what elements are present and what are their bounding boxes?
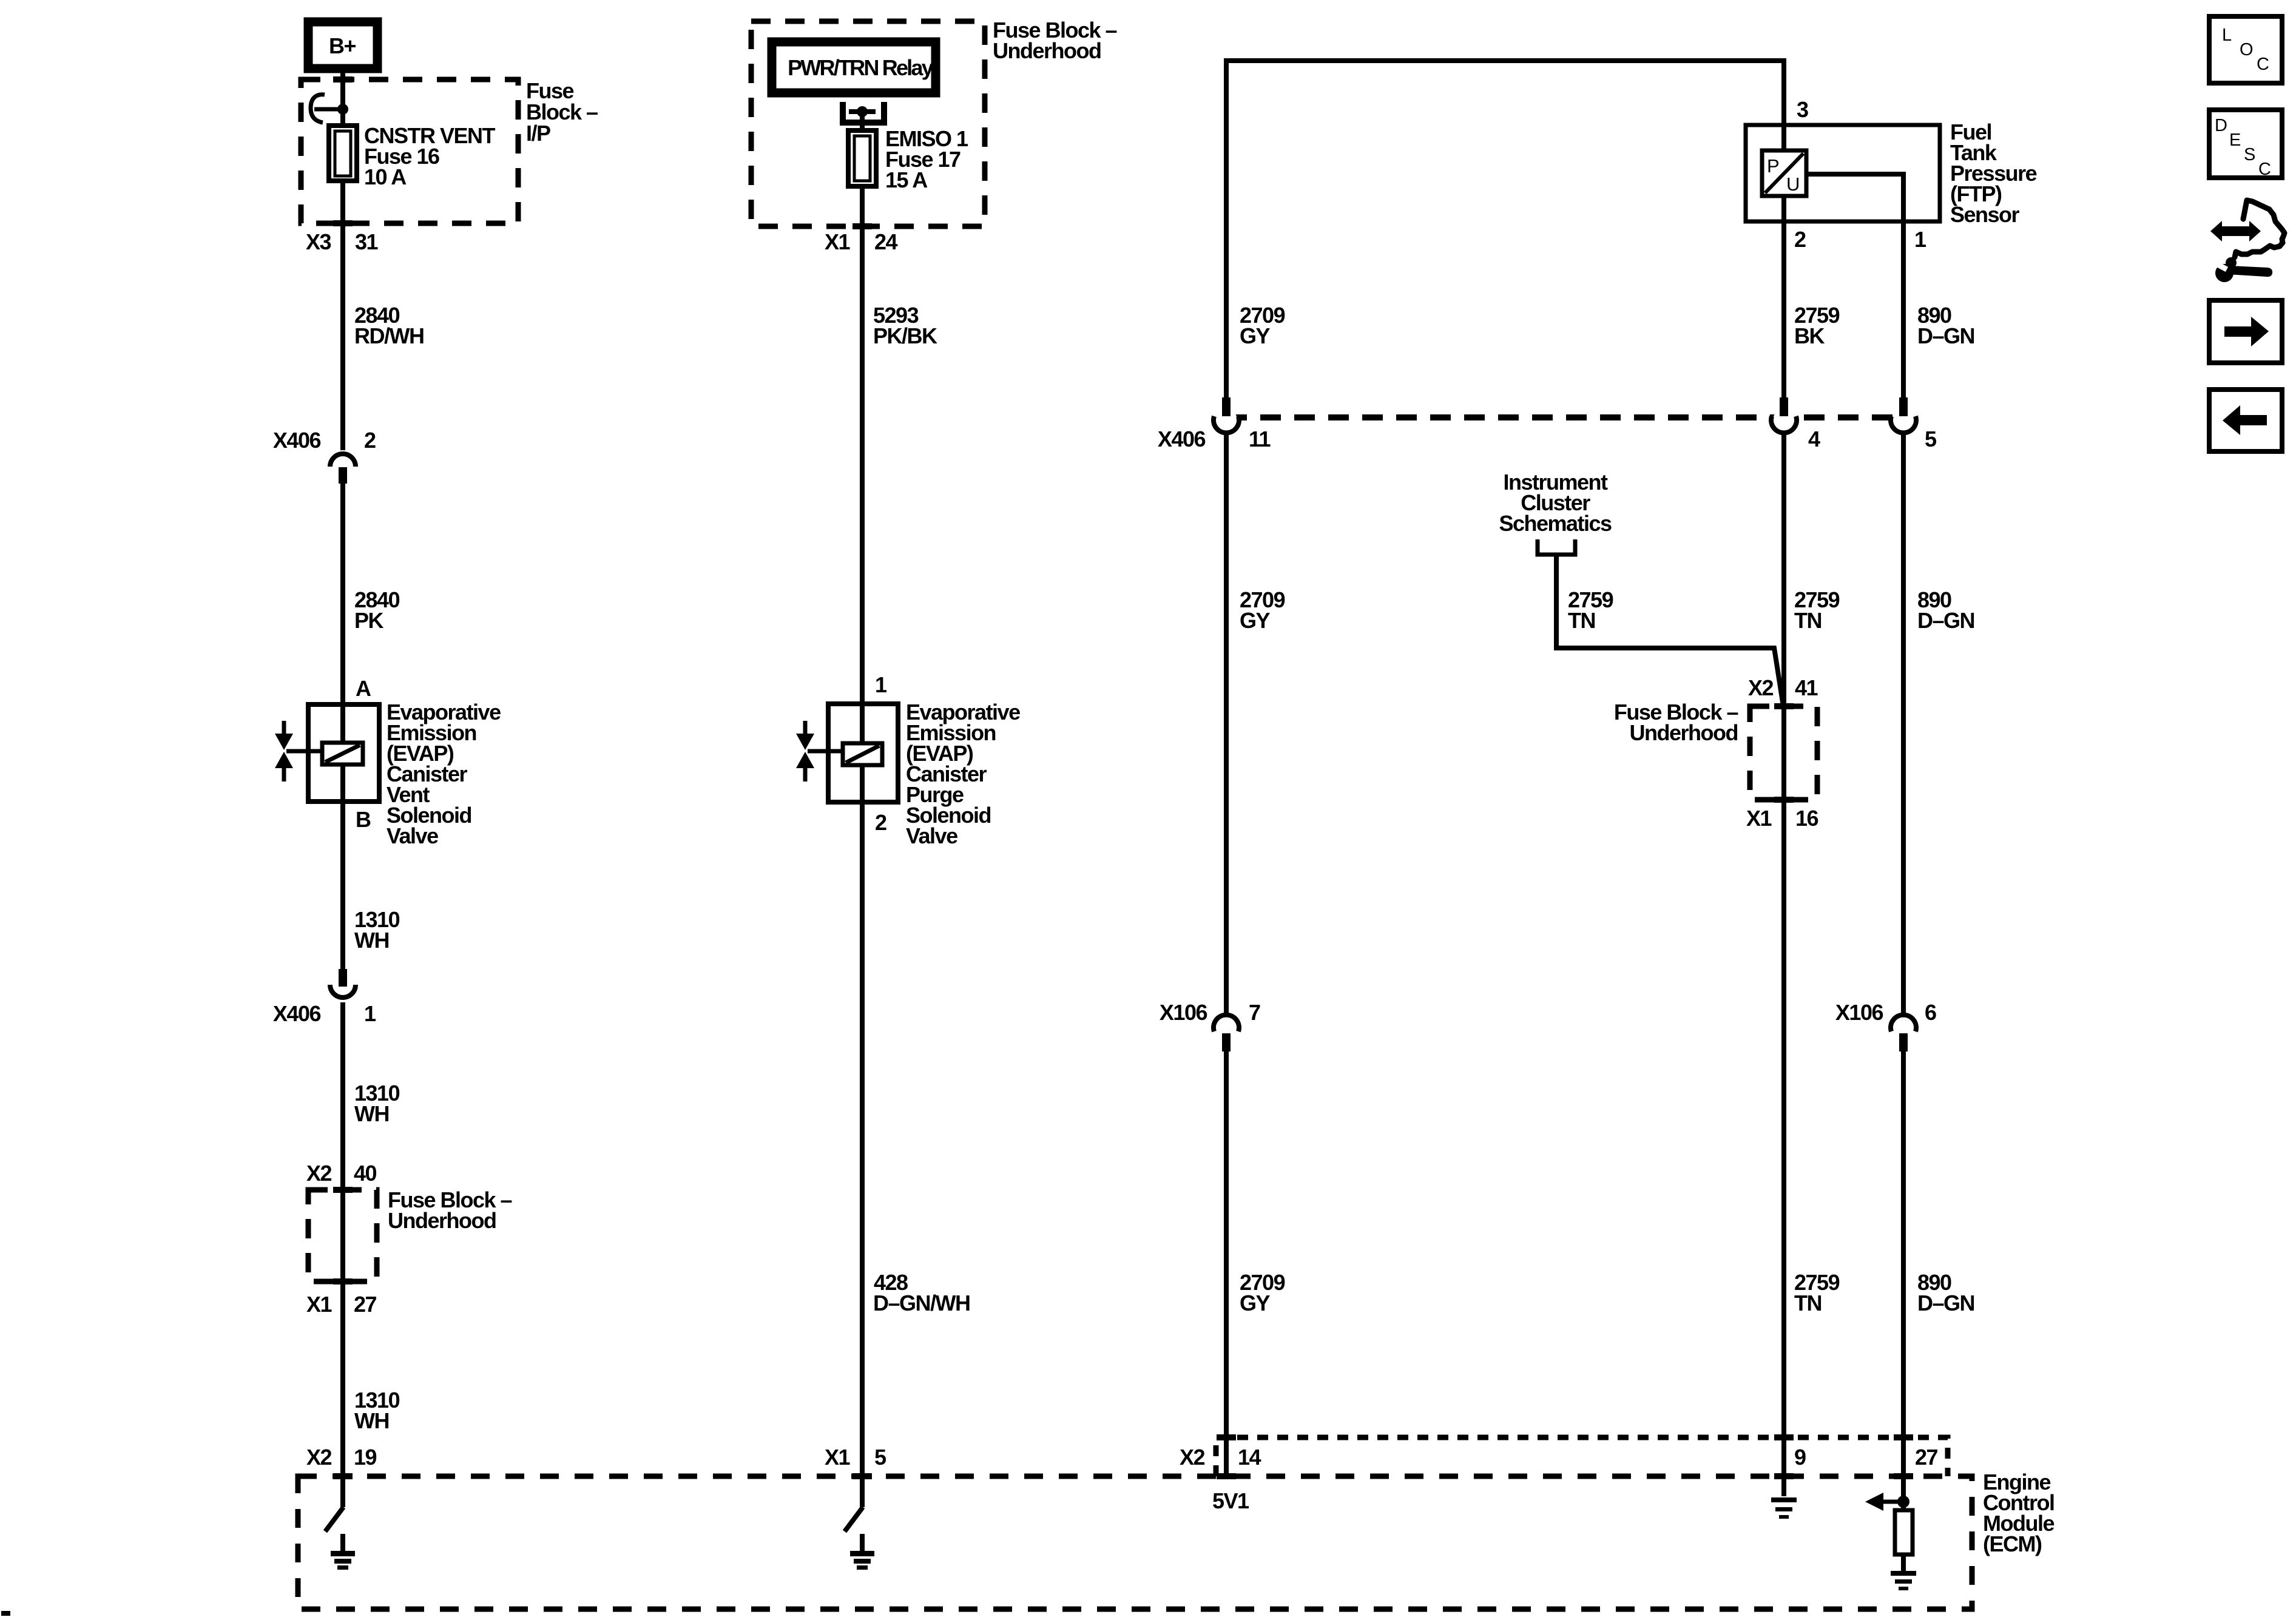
switch to ground (ECM driver, col 2) [845,1507,863,1531]
svg-text:Sensor: Sensor [1950,202,2020,227]
svg-text:9: 9 [1794,1445,1806,1470]
wire 2840 PK [343,484,400,969]
wire 2759 TN branch to X2-41 [1556,555,1784,710]
signal arrow (to ECM logic) [1865,1493,1903,1511]
fuse block underhood dashed box [751,18,1117,229]
fuse block I/P dashed box [301,76,598,226]
svg-text:6: 6 [1925,1000,1936,1025]
svg-text:27: 27 [354,1292,377,1317]
svg-text:X3: X3 [306,229,331,254]
svg-text:41: 41 [1795,675,1818,700]
svg-text:14: 14 [1238,1445,1261,1470]
node: instrument cluster schematics off-page reference [1499,470,1612,555]
svg-text:Schematics: Schematics [1499,511,1612,536]
svg-text:X2: X2 [1180,1445,1205,1470]
svg-text:16: 16 [1795,806,1818,831]
svg-text:D–GN/WH: D–GN/WH [873,1291,970,1315]
fuse block underhood pass-through X2-41 / X1-16 [1614,675,1818,831]
relay contact output [840,102,887,126]
svg-text:15 A: 15 A [885,167,928,192]
connector X2 pin 19 (ECM) [306,1445,377,1479]
svg-text:A: A [356,676,371,701]
svg-text:2: 2 [364,428,376,453]
svg-text:2: 2 [875,810,886,835]
svg-text:BK: BK [1794,323,1825,348]
svg-text:D–GN: D–GN [1917,608,1974,633]
svg-text:GY: GY [1240,608,1271,633]
svg-text:40: 40 [354,1161,377,1186]
wire 890 D-GN (lower) [1903,1052,1974,1510]
connector X406 inline dashed harness line [1226,414,1903,420]
ground (ECM pin 9) [1771,1497,1797,1519]
wire 1310 WH [343,1002,400,1507]
svg-text:Valve: Valve [387,823,438,848]
wire 5V reference feed (top) [1226,61,1784,400]
svg-text:D–GN: D–GN [1917,1291,1974,1315]
svg-text:RD/WH: RD/WH [354,323,424,348]
svg-text:Underhood: Underhood [993,38,1101,63]
svg-text:24: 24 [874,229,898,254]
connector X406 pin 2 [273,428,376,484]
svg-text:WH: WH [354,928,389,953]
wire 2709 GY (middle) [1226,433,1285,1016]
icon: next page arrow box [2209,300,2282,363]
svg-text:PWR/TRN Relay: PWR/TRN Relay [788,55,933,80]
svg-text:5: 5 [1925,427,1937,451]
wire 2840 RD/WH [343,181,424,450]
page artifact mark [1,1611,10,1616]
fuse F17 EMISO 1 15A [848,112,968,192]
svg-text:4: 4 [1808,427,1820,451]
wire 428 D-GN/WH [873,1270,970,1315]
wire label 2759 BK (upper) [1794,303,1840,348]
icon: LOC link box [2209,16,2282,83]
connector X1 pin 5 (ECM) [825,1445,886,1479]
connector X2 dotted block at ECM [1180,1434,1948,1479]
svg-text:1: 1 [875,672,887,697]
relay K: PWR/TRN Relay [772,42,936,93]
svg-text:D: D [2215,116,2227,135]
connector X406 pin 5 [1891,397,1937,451]
bus bar tap [311,95,348,123]
wire 2759 TN (lower label) [1794,1270,1840,1315]
svg-text:GY: GY [1240,1291,1271,1315]
engine control module ECM dashed box [298,1470,2054,1609]
svg-text:X406: X406 [273,1001,321,1026]
svg-text:C: C [2258,160,2271,179]
icon: repair hand with double arrow and wrench [2210,200,2284,282]
svg-text:X1: X1 [1746,806,1772,831]
solenoid valve: EVAP canister vent solenoid valve [275,676,501,848]
sensor pin 2 wire stub [1784,196,1806,400]
svg-text:X1: X1 [825,229,851,254]
connector X3 pin 31 [306,229,379,254]
svg-text:1: 1 [1914,227,1926,252]
svg-text:1: 1 [364,1001,376,1026]
icon: previous page arrow box [2209,390,2282,451]
svg-text:X406: X406 [1158,427,1206,451]
svg-text:27: 27 [1915,1445,1938,1470]
svg-text:11: 11 [1249,427,1271,451]
wire 2709 GY (lower) [1226,1052,1285,1476]
svg-text:3: 3 [1797,97,1808,122]
ground (ECM col 2) [850,1534,874,1570]
svg-text:B+: B+ [329,33,356,58]
wire from B+ to fuse 16 [340,69,345,126]
svg-text:D–GN: D–GN [1917,323,1974,348]
node junction on pin 27 input [1897,1496,1909,1508]
svg-text:Underhood: Underhood [1630,720,1738,745]
connector X1 pin 24 [825,229,898,254]
svg-text:X106: X106 [1835,1000,1883,1025]
wire label 890 D-GN (upper) [1917,303,1974,348]
svg-text:(ECM): (ECM) [1983,1531,2042,1556]
svg-text:10 A: 10 A [364,164,407,189]
svg-text:Valve: Valve [906,823,957,848]
ground (ECM pull-up) [1891,1555,1916,1590]
connector X106 pin 6 [1835,1000,1936,1052]
svg-text:X106: X106 [1160,1000,1207,1025]
sensor pin 1 wire stub [1806,174,1926,400]
wire 2759 TN (column, middle) [1784,433,1840,1496]
svg-text:X2: X2 [306,1445,332,1470]
svg-text:X406: X406 [273,428,321,453]
svg-text:X2: X2 [1748,675,1774,700]
fuse block underhood pass-through X2-40 / X1-27 [306,1161,512,1317]
svg-text:O: O [2240,40,2254,59]
fuse F16 CNSTR VENT 10A [329,123,496,189]
svg-text:C: C [2257,55,2269,74]
solenoid valve: EVAP canister purge solenoid valve [796,672,1020,848]
svg-text:U: U [1786,174,1799,195]
svg-text:X1: X1 [306,1292,333,1317]
svg-text:5V1: 5V1 [1212,1488,1249,1513]
resistor (pull-up in ECM) [1895,1510,1913,1555]
connector X406 pin 11 [1158,397,1271,451]
wire label 2709 GY (upper) [1240,303,1285,348]
svg-text:PK: PK [354,608,384,633]
svg-text:TN: TN [1568,608,1595,633]
wire 5293 PK/BK [862,186,937,1507]
svg-text:P: P [1767,155,1779,177]
svg-text:X2: X2 [306,1161,332,1186]
connector X406 pin 1 [273,969,376,1026]
svg-text:TN: TN [1794,1291,1822,1315]
svg-text:GY: GY [1240,323,1271,348]
connector X406 pin 4 [1771,397,1820,451]
svg-text:31: 31 [355,229,379,254]
svg-text:19: 19 [354,1445,377,1470]
switch to ground (ECM driver, col 1) [325,1507,343,1531]
svg-text:5: 5 [874,1445,886,1470]
power symbol B+ [308,22,377,69]
svg-text:S: S [2244,145,2255,164]
ground (ECM col 1) [331,1534,355,1570]
wire 1310 WH [354,907,400,953]
svg-text:7: 7 [1249,1000,1260,1025]
connector X106 pin 7 [1160,1000,1260,1052]
icon: DESC link box [2209,110,2282,179]
svg-text:WH: WH [354,1408,389,1433]
svg-text:B: B [356,807,371,832]
svg-text:E: E [2229,130,2241,150]
svg-text:I/P: I/P [526,121,550,146]
wire 890 D-GN (middle) [1903,433,1974,1016]
svg-text:2: 2 [1794,227,1806,252]
svg-text:Underhood: Underhood [388,1208,496,1233]
svg-text:WH: WH [354,1101,389,1126]
svg-text:L: L [2222,25,2232,45]
svg-text:PK/BK: PK/BK [873,323,937,348]
svg-text:X1: X1 [825,1445,851,1470]
svg-text:TN: TN [1794,608,1822,633]
wire 1310 WH [354,1388,400,1433]
fuel tank pressure FTP sensor [1746,97,2037,227]
